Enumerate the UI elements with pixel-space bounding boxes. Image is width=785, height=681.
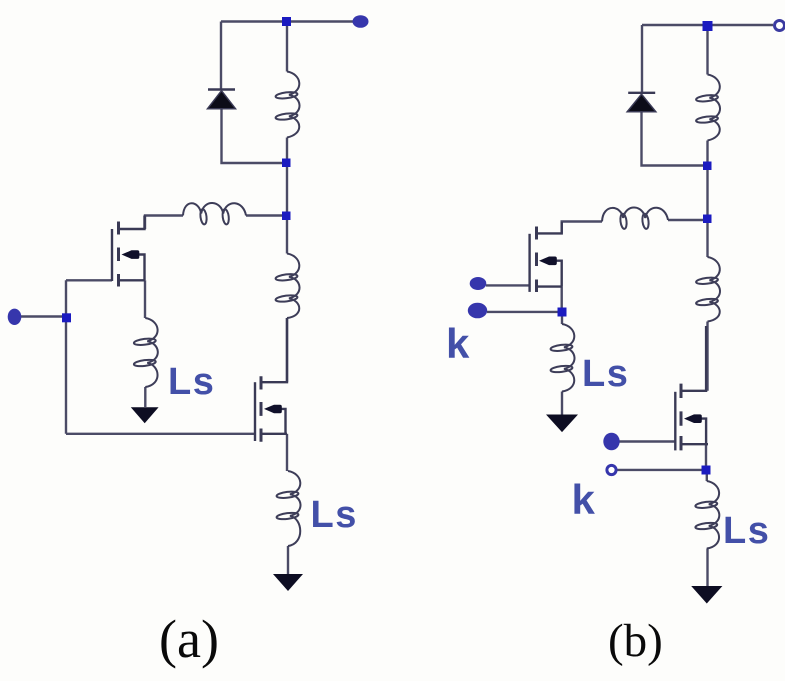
wire coil Ls2 to ground (a) [287,546,289,574]
body arrow M2 (a) [264,405,282,414]
svg-text:Ls: Ls [582,353,629,395]
inductor L1 top coil (a) [287,72,300,138]
node input (a) [62,313,71,322]
inductor Ls3 coil (b) [562,324,575,392]
transistor M1 (a) [112,216,145,287]
terminal gate M3 (b) [470,277,487,290]
svg-text:k: k [446,320,470,367]
terminal open source M4 (b) [607,465,616,474]
terminal output (a) [353,15,369,28]
terminal gate M4 (b) [603,433,619,451]
wire source M3 down (b) [561,287,563,312]
body arrow M1 (a) [122,250,140,259]
node top rail (b) [703,21,713,31]
wire gate feedback vertical (a) [65,280,67,434]
inductor L5 horizontal coil (b) [602,207,668,221]
wire left drop to diode (a) [220,22,222,90]
wire source M2 to coil Ls2 (a) [286,434,288,471]
wire top rail (a) [221,20,353,22]
transistor M2 (a) [255,318,287,442]
body arrow M3 (b) [539,257,557,266]
node top rail (a) [282,17,291,26]
diode D1 (a) [208,90,236,109]
wire horizontal coil leads (a) [145,216,287,230]
ground GND4 (b) [691,586,722,604]
body arrow M4 (b) [684,414,702,423]
ground GND3 (b) [546,415,578,433]
wire input terminal to node (a) [21,315,66,317]
transistor M4 (b) [675,326,708,450]
svg-text:Ls: Ls [311,494,358,536]
svg-text:(a): (a) [159,609,219,669]
inductor Ls2 coil (a) [288,471,301,546]
wire node to coil Ls4 (b) [706,474,708,481]
svg-text:Ls: Ls [168,361,215,403]
node diode junction (a) [282,159,291,168]
wire diode to bottom junction (a) [222,108,283,163]
node source M4 (b) [702,466,711,475]
wire top coil leads (a) [286,22,288,217]
terminal input (a) [8,309,22,325]
wire coil Ls3 to ground (b) [561,392,563,415]
terminal open output (b) [775,21,785,31]
node diode junction (b) [703,162,712,171]
wire node to coil Ls3 (b) [561,316,563,324]
diode D2 (b) [627,93,656,112]
svg-text:(b): (b) [608,615,663,667]
wire mid vertical to drain M2 (a) [286,216,288,382]
wire mid vertical to drain M4 (b) [706,219,708,391]
wire gate M3 run (b) [486,284,530,286]
wire left drop to diode (b) [641,25,643,92]
inductor Ls4 coil (b) [707,481,720,549]
wire diode to bottom junction (b) [642,112,704,166]
wire source M1 to coil Ls1 (a) [144,280,146,318]
wire source M4 to node (b) [705,444,707,470]
wire horizontal coil leads (b) [562,220,708,233]
wire gate M4 run (b) [619,440,675,442]
inductor L4 top coil (b) [708,75,721,141]
node source M3 (b) [558,308,567,317]
svg-text:Ls: Ls [723,510,770,552]
wire top rail (b) [642,24,773,26]
ground GND1 (a) [131,407,159,423]
inductor L6 mid coil (b) [708,257,721,322]
inductor L3 mid coil (a) [287,254,300,319]
svg-text:k: k [572,476,596,523]
wire top coil leads (b) [706,25,708,219]
ground GND2 (a) [273,574,303,591]
wire coil Ls4 to ground (b) [706,549,708,587]
wire coil Ls1 to ground (a) [144,387,146,407]
wire gate M2 run (a) [66,433,254,435]
inductor L2 horizontal coil (a) [183,203,246,216]
inductor Ls1 coil (a) [145,318,158,387]
wire k-circle to source node (b) [618,469,707,471]
wire gate M1 run (a) [66,279,112,281]
node mid junction (a) [282,212,291,221]
transistor M3 (b) [530,222,562,292]
node mid junction (b) [703,215,712,224]
wire source M3 run to node (b) [487,311,562,313]
terminal source M3 (b) [468,303,487,319]
